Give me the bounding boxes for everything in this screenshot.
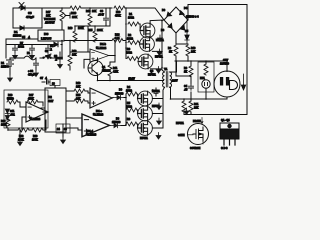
label Q3 IRF511 bbox=[148, 70, 156, 77]
label C3 .0047 bbox=[98, 10, 105, 17]
wire top bus bbox=[62, 7, 70, 9]
fuse F1 bbox=[24, 52, 36, 60]
svg-text:470µF: 470µF bbox=[26, 15, 34, 19]
svg-text:100K: 100K bbox=[97, 29, 103, 32]
op-amp IC1-c bbox=[90, 88, 112, 108]
svg-text:IC1-b: IC1-b bbox=[100, 43, 107, 46]
diode D2 bbox=[5, 109, 9, 114]
mosfet Q4a bbox=[138, 91, 153, 106]
svg-text:GATE: GATE bbox=[178, 134, 185, 137]
wire opamp out to R24 bbox=[109, 42, 115, 65]
wire R12 top bbox=[69, 41, 71, 56]
label R20 470K bbox=[115, 11, 121, 18]
svg-text:ADJUST: ADJUST bbox=[45, 22, 55, 25]
label D3 bbox=[162, 9, 166, 12]
label IRF511 f bbox=[140, 137, 148, 140]
wire bottom y97 bbox=[171, 92, 228, 101]
IC3 regulator box bbox=[38, 30, 64, 41]
wire mid bus bbox=[6, 26, 112, 58]
svg-text:1N4003: 1N4003 bbox=[115, 93, 124, 96]
svg-text:IRF511: IRF511 bbox=[176, 122, 184, 125]
svg-text:20K: 20K bbox=[191, 51, 196, 54]
resistor R22b bbox=[189, 101, 199, 115]
ic2 sub box bbox=[56, 124, 70, 133]
svg-text:470K: 470K bbox=[28, 98, 34, 101]
diode D6 bbox=[54, 42, 58, 46]
label 120V bbox=[172, 80, 178, 83]
svg-text:IC2: IC2 bbox=[48, 96, 52, 99]
label IC1-c LM324 bbox=[93, 110, 104, 117]
wire neon top bbox=[205, 61, 207, 99]
wire gate bus lower bbox=[126, 94, 138, 128]
svg-text:¼ LM324: ¼ LM324 bbox=[30, 117, 41, 121]
resistor R19 bbox=[70, 6, 81, 10]
label 12.6V rail bbox=[129, 78, 136, 81]
svg-text:DRAIN: DRAIN bbox=[193, 120, 201, 123]
diode D10 bbox=[185, 20, 189, 44]
op-amp IC1-d bbox=[82, 114, 110, 137]
label IC1-d LM324 bbox=[86, 130, 97, 137]
resistor R10 bbox=[186, 45, 196, 56]
label C6 bbox=[50, 45, 54, 52]
svg-text:10K: 10K bbox=[76, 86, 81, 89]
neon lamp NE1 bbox=[200, 77, 210, 88]
capacitor C2 bbox=[58, 52, 63, 68]
label T1 bbox=[164, 67, 168, 71]
svg-text:NE1: NE1 bbox=[200, 77, 205, 80]
label IC1-b LM324 bbox=[96, 43, 107, 50]
resistor R16 bbox=[73, 26, 77, 42]
svg-text:10K: 10K bbox=[92, 10, 97, 13]
svg-text:1N4003: 1N4003 bbox=[13, 35, 22, 38]
label SOURCE bbox=[190, 141, 203, 150]
ground source b bbox=[157, 49, 162, 56]
mosfet Q3a bbox=[138, 54, 153, 69]
svg-text:10K: 10K bbox=[72, 54, 77, 57]
svg-text:1K: 1K bbox=[184, 71, 187, 74]
IC2 4017 box bbox=[45, 88, 66, 132]
wire top bus to bridge bbox=[125, 8, 164, 20]
bridge rectifier diamond bbox=[164, 7, 188, 33]
wire drain bus lower bbox=[152, 87, 164, 128]
capacitor C6 bbox=[46, 45, 51, 53]
svg-text:5MEG: 5MEG bbox=[7, 98, 14, 101]
svg-text:R16: R16 bbox=[68, 27, 73, 30]
diode D7 top of loop bbox=[18, 6, 28, 10]
ground battery bbox=[8, 70, 13, 82]
wire d8 out bbox=[121, 125, 126, 126]
svg-text:100Ω: 100Ω bbox=[128, 17, 134, 20]
svg-text:Q1 - Q4: Q1 - Q4 bbox=[221, 119, 230, 122]
ground bottom left bbox=[18, 130, 23, 146]
resistor R22 bbox=[18, 128, 29, 142]
gate resistor R5 bbox=[126, 102, 137, 112]
svg-text:100Ω: 100Ω bbox=[126, 52, 132, 55]
diode D5 bbox=[181, 26, 185, 30]
svg-text:100Ω: 100Ω bbox=[18, 46, 24, 49]
label IRF511 inset bbox=[176, 122, 184, 125]
capacitor C7 bbox=[40, 77, 50, 84]
mosfet Q5a bbox=[138, 106, 153, 121]
inset TO-220 package bbox=[220, 123, 239, 145]
label 12.6V rail bbox=[129, 78, 136, 81]
resistor R12 bbox=[68, 52, 72, 70]
IC2 pin 16 box bbox=[50, 80, 60, 89]
svg-text:4.7K: 4.7K bbox=[113, 71, 118, 74]
transistor Q1 bbox=[88, 61, 103, 76]
svg-text:12VDC: 12VDC bbox=[1, 66, 9, 69]
diode D1 on bottom of loop bbox=[20, 26, 24, 30]
capacitor C3 bbox=[104, 8, 109, 26]
wire d9 out bbox=[112, 97, 126, 100]
label D4 bbox=[184, 7, 188, 10]
svg-text:4017: 4017 bbox=[48, 100, 54, 103]
svg-text:R18: R18 bbox=[86, 10, 91, 13]
svg-text:1N4003: 1N4003 bbox=[112, 121, 121, 124]
label R25 100K bbox=[88, 29, 103, 32]
resistor R20 bbox=[114, 6, 125, 10]
resistor R21 bbox=[182, 101, 186, 115]
wire top bus 2 bbox=[81, 7, 112, 9]
label C2 .1 bbox=[54, 55, 58, 62]
wire bridge right to border bbox=[184, 5, 247, 115]
svg-text:10K: 10K bbox=[72, 15, 77, 19]
svg-text:¼ LM324: ¼ LM324 bbox=[96, 46, 107, 50]
label D5 bbox=[185, 30, 189, 33]
svg-text:100K: 100K bbox=[1, 124, 7, 127]
resistor R26 bbox=[1, 114, 10, 128]
capacitor C11 bbox=[10, 110, 15, 117]
resistor R15 bbox=[74, 94, 85, 103]
ground 22k bbox=[184, 108, 189, 115]
label LM324 a bbox=[30, 117, 41, 121]
svg-text:100K: 100K bbox=[78, 27, 84, 30]
wire gate bus upper bbox=[126, 8, 140, 59]
label D1 1N4003 bbox=[13, 30, 22, 38]
svg-text:G D S: G D S bbox=[221, 147, 228, 150]
label Q1-Q4 bbox=[221, 119, 230, 122]
gate resistor R2 bbox=[127, 34, 139, 45]
wire fb bbox=[18, 102, 47, 130]
svg-text:R25: R25 bbox=[88, 29, 93, 32]
diode D2b bbox=[5, 116, 9, 121]
svg-text:T1: T1 bbox=[164, 67, 168, 71]
ground source c bbox=[156, 67, 161, 74]
ground source d bbox=[157, 103, 162, 110]
potentiometer R17 bbox=[60, 8, 70, 26]
capacitor C9 bbox=[34, 58, 39, 77]
resistor R25 bbox=[93, 26, 97, 42]
mosfet Q2a bbox=[140, 37, 155, 52]
svg-text:.0047: .0047 bbox=[98, 14, 105, 17]
svg-text:1K: 1K bbox=[169, 51, 172, 54]
svg-text:22K: 22K bbox=[194, 107, 199, 110]
capacitor C8 value label bbox=[26, 11, 34, 19]
svg-text:100Ω: 100Ω bbox=[126, 90, 132, 93]
capacitor C10 bbox=[152, 88, 158, 96]
label C1 .1 R7 bbox=[18, 36, 31, 49]
label IRF511 b bbox=[155, 56, 163, 59]
svg-text:100Ω: 100Ω bbox=[127, 38, 133, 41]
resistor R13 bbox=[74, 82, 85, 93]
label IRF511 e bbox=[152, 105, 160, 108]
wire 20k pair top bbox=[176, 43, 188, 45]
label D6 bbox=[161, 29, 165, 32]
svg-text:4.7K: 4.7K bbox=[115, 37, 120, 40]
wire bridge bottom down bbox=[175, 33, 177, 44]
label IRF511 d bbox=[152, 90, 160, 93]
resistor R11 bbox=[108, 65, 118, 81]
svg-text:470K: 470K bbox=[115, 15, 121, 18]
battery B1 bbox=[7, 58, 14, 70]
label R17 10K VOLTAGE ADJUST bbox=[44, 11, 56, 25]
diode D9 bbox=[113, 89, 124, 100]
gate resistor R3 bbox=[126, 48, 138, 61]
label R19 10K bbox=[71, 11, 77, 19]
svg-text:IRF511: IRF511 bbox=[140, 137, 148, 140]
label OUT 120VAC bbox=[220, 59, 229, 66]
wire ic2 pins bbox=[41, 91, 82, 130]
capacitor C1 bbox=[30, 45, 35, 53]
svg-text:100K: 100K bbox=[18, 139, 24, 142]
svg-text:100Ω: 100Ω bbox=[126, 106, 132, 109]
gate resistor R4 bbox=[126, 86, 137, 96]
wire drain bus upper bbox=[150, 20, 164, 72]
outlet SO1 bbox=[214, 71, 240, 97]
svg-text:120V: 120V bbox=[172, 80, 178, 83]
gate resistor R1 bbox=[128, 13, 139, 26]
wire bottom left bbox=[8, 120, 46, 132]
ground source a bbox=[158, 35, 163, 42]
svg-text:IC3: IC3 bbox=[44, 32, 49, 36]
gate resistor R6 bbox=[126, 118, 137, 126]
wire y61 bbox=[175, 56, 227, 76]
wire ic1c inputs bbox=[85, 91, 90, 103]
svg-text:120VAC: 120VAC bbox=[220, 63, 229, 66]
feedback box bbox=[4, 90, 48, 128]
svg-text:¼ LM324: ¼ LM324 bbox=[93, 113, 104, 117]
arrow neutral bbox=[241, 74, 245, 90]
label IRF511 a bbox=[156, 39, 164, 42]
resistor R23 bbox=[32, 128, 43, 142]
svg-text:100K: 100K bbox=[32, 139, 38, 142]
resistor R27 bbox=[27, 94, 38, 104]
svg-text:.001: .001 bbox=[10, 114, 15, 117]
label B1 12VDC bbox=[1, 62, 9, 69]
diode D8 bbox=[110, 118, 121, 128]
ground source f bbox=[156, 133, 161, 140]
label GATE bbox=[178, 134, 193, 137]
svg-text:470µF: 470µF bbox=[28, 74, 35, 77]
resistor R18 bbox=[88, 8, 92, 26]
label R12 10K bbox=[72, 50, 77, 57]
wire switch to bus bbox=[55, 57, 62, 59]
ground C1 bbox=[30, 52, 35, 59]
wire outlet top bbox=[226, 61, 228, 99]
svg-text:IRF511: IRF511 bbox=[148, 74, 156, 77]
label Q1 2N2222 bbox=[102, 66, 111, 73]
label R18 10K bbox=[86, 10, 97, 13]
op-amp IC1-b bbox=[90, 49, 109, 62]
diode D3 bbox=[167, 12, 171, 16]
wire loop to pot bbox=[42, 7, 62, 9]
wire battery row bbox=[10, 57, 24, 59]
resistor R8 bbox=[168, 45, 178, 56]
label C9 470uF bbox=[28, 70, 35, 77]
wire top-left loop bbox=[13, 8, 42, 28]
capacitor C4 bbox=[13, 45, 18, 59]
resistor R24 bbox=[112, 34, 126, 43]
svg-text:SOURCE: SOURCE bbox=[190, 147, 201, 150]
wire mid link y26 bbox=[75, 8, 110, 26]
label DRAIN bbox=[193, 118, 203, 124]
diode D6b bbox=[168, 24, 172, 28]
transformer T1 bbox=[163, 72, 172, 88]
ground ic2 bbox=[61, 133, 66, 144]
resistor neon R bbox=[204, 62, 208, 75]
label G D S bbox=[221, 147, 228, 150]
op-amp IC1-a bbox=[26, 102, 48, 122]
ground source e bbox=[157, 118, 162, 125]
diode D4 bbox=[180, 11, 184, 15]
switch S1 bbox=[40, 50, 55, 58]
resistor R9 bbox=[184, 61, 193, 77]
wire transformer secondary bbox=[170, 61, 177, 99]
fuse mark above loop bbox=[19, 3, 24, 8]
resistor R29 bbox=[7, 94, 18, 104]
ground C6 bbox=[46, 52, 51, 59]
inset mosfet pinout bbox=[188, 124, 209, 145]
label R16 100K bbox=[68, 27, 84, 30]
svg-text:LM7805: LM7805 bbox=[41, 37, 52, 41]
label 1N4003 x4 bbox=[186, 16, 199, 19]
svg-text:12.6V: 12.6V bbox=[129, 78, 136, 81]
svg-text:D1: D1 bbox=[14, 30, 18, 34]
wire inputs IC1-b bbox=[70, 26, 90, 68]
mosfet Q1a bbox=[140, 23, 155, 38]
neon box bbox=[198, 62, 214, 92]
wire q1 connections bbox=[98, 58, 164, 81]
svg-text:10K: 10K bbox=[76, 98, 81, 101]
mosfet Q6a bbox=[138, 121, 153, 136]
svg-text:¼ LM324: ¼ LM324 bbox=[86, 133, 97, 137]
capacitor C10 bbox=[184, 77, 194, 92]
